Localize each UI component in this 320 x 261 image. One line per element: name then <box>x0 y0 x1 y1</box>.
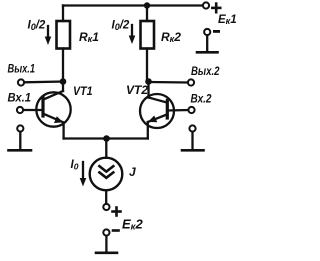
svg-text:I0: I0 <box>71 159 79 172</box>
node rail-R2 junction <box>144 2 150 8</box>
arrow I0 <box>80 162 87 187</box>
node collector VT1 <box>60 78 67 85</box>
wire Вх.2 to base VT2 <box>168 109 189 112</box>
ground below Eк1 <box>197 51 218 54</box>
resistor R1 (Rк1) <box>57 21 71 49</box>
wire Вх.1 to base VT1 <box>23 109 42 111</box>
wire R2 to collector node <box>146 49 148 81</box>
minus sign Eк2 <box>113 229 119 232</box>
wire R1 to collector node <box>62 49 64 82</box>
resistor R2 (Rк2) <box>141 21 155 49</box>
svg-text:VT2: VT2 <box>126 85 149 97</box>
node emitter junction <box>103 135 110 142</box>
plus sign Eк1 <box>212 4 220 13</box>
minus sign Eк1 <box>214 30 218 33</box>
ground right <box>182 132 204 151</box>
terminal Eк2 minus <box>103 229 109 235</box>
terminal ground right <box>189 125 195 131</box>
svg-text:Вх.2: Вх.2 <box>191 94 213 106</box>
wire node to Вых.2 <box>149 81 188 84</box>
wire rail to R1 <box>62 6 64 22</box>
terminal Вх.1 <box>17 107 23 113</box>
current source J <box>90 158 123 191</box>
wire rail to R2 <box>146 6 148 22</box>
svg-text:I0/2: I0/2 <box>112 19 130 32</box>
terminal Вх.2 <box>188 107 194 113</box>
node collector VT2 <box>145 78 152 85</box>
wire Вых.1 to node <box>24 80 63 83</box>
svg-text:I0/2: I0/2 <box>28 19 46 32</box>
wire emitter VT2 down <box>147 122 149 139</box>
arrow I0/2 right <box>129 25 136 44</box>
svg-text:Вых.1: Вых.1 <box>8 64 36 76</box>
wire Eк1 minus to ground <box>206 35 208 51</box>
wire junction to current source <box>105 139 107 158</box>
wire Eк2 minus to ground <box>105 236 107 252</box>
plus sign Eк2 <box>113 208 121 216</box>
wire top rail <box>63 4 203 6</box>
svg-text:J: J <box>129 165 136 179</box>
transistor VT1 <box>36 82 70 127</box>
ground bottom <box>96 252 117 255</box>
svg-text:VT1: VT1 <box>73 86 93 98</box>
terminal Eк2 plus <box>103 204 109 210</box>
wire emitter rail <box>64 137 148 139</box>
terminal Eк1 plus <box>203 2 209 8</box>
wire emitter VT1 down <box>62 123 64 139</box>
transistor VT2 <box>140 82 174 129</box>
terminal Вых.2 <box>188 79 194 85</box>
svg-text:Вх.1: Вх.1 <box>8 93 32 105</box>
arrow I0/2 left <box>45 26 52 45</box>
ground left <box>9 132 32 151</box>
wire current source to Eк2 plus <box>105 190 107 204</box>
terminal Eк1 minus <box>204 29 210 35</box>
svg-text:Eк1: Eк1 <box>218 14 237 26</box>
terminal ground left <box>17 125 23 131</box>
terminal Вых.1 <box>18 79 24 85</box>
svg-text:Вых.2: Вых.2 <box>191 66 220 78</box>
